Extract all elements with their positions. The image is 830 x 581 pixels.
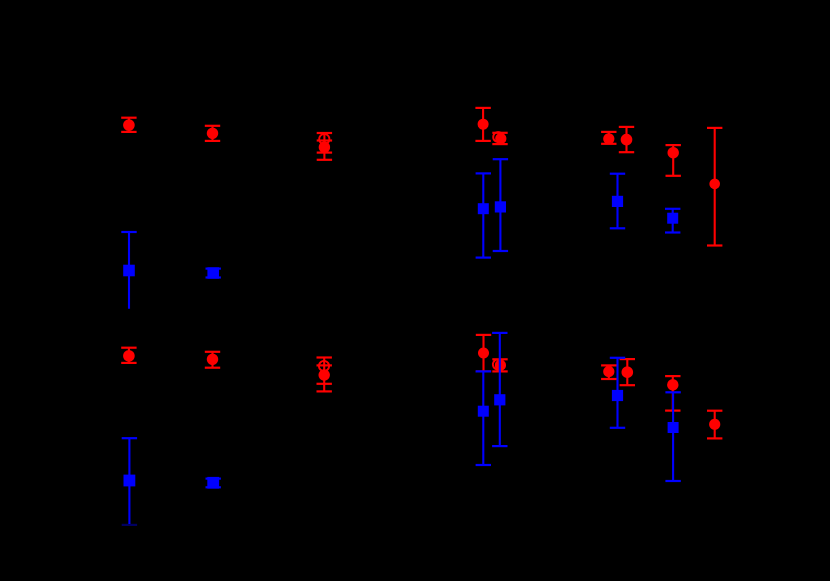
top panel red errorbar point 1 [121, 118, 136, 132]
bottom panel blue errorbar point 5 [610, 358, 625, 428]
bottom panel red errorbar point 8 [665, 376, 680, 411]
bottom panel red errorbar point 6 [601, 365, 616, 379]
top panel red errorbar point 2 [205, 126, 220, 141]
bottom panel blue errorbar point 3 [476, 371, 491, 465]
top panel blue errorbar point 5 [610, 174, 625, 229]
bottom panel red double errorbar cluster (open+filled) at x=324 [317, 358, 332, 392]
top panel red errorbar point 7 [619, 127, 634, 152]
top panel red errorbar point 6 [601, 132, 616, 145]
top panel blue errorbar point 4 [493, 159, 508, 251]
top panel red double errorbar cluster (open+filled) at x=324 [317, 133, 332, 160]
bottom panel red errorbar point 1 [121, 348, 136, 363]
bottom panel blue errorbar point 4 [492, 333, 507, 446]
top panel red double errorbar cluster (open+filled) at x=500 [492, 132, 507, 144]
bottom panel red errorbar point 9 [707, 411, 722, 439]
bottom panel blue errorbar point 6 [665, 392, 680, 481]
top panel blue errorbar point 6 [665, 209, 680, 233]
top panel blue errorbar point 1 (lower bar clipped at axis) [121, 232, 136, 309]
bottom panel red double errorbar cluster (open+filled) at x=500 [492, 359, 507, 371]
bottom panel blue errorbar point 2 [206, 477, 221, 489]
top panel red errorbar point 8 [666, 145, 681, 176]
bottom panel red errorbar point 7 [620, 359, 635, 385]
bottom panel blue errorbar point 1 (dim clipped bottom cap) [122, 438, 137, 525]
bottom panel red errorbar point 2 [205, 352, 220, 368]
top panel red errorbar point 9 [707, 128, 722, 246]
top panel red errorbar point 4 [475, 108, 490, 141]
top panel blue errorbar point 3 [476, 173, 491, 257]
top panel blue errorbar point 2 [206, 267, 221, 279]
bottom panel red errorbar point 4 [476, 335, 491, 372]
